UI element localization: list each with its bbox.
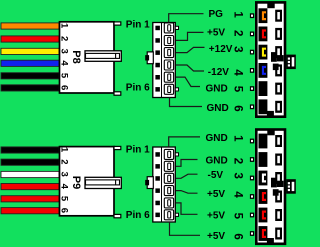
header J2 (bottom) pin slot 3: [164, 173, 173, 183]
header J1 (top) contact square 3: [155, 50, 160, 55]
header J1 (top) pin slot 4: [164, 60, 173, 70]
plug J8 (top right) rear slot 1: [275, 10, 282, 22]
svg-text:GND: GND: [206, 156, 228, 167]
header J1 (top) pin slot 6: [164, 84, 173, 94]
plug J8 (top right) body: [256, 2, 285, 116]
plug J9 (bottom right) crimp pin 2: [250, 157, 254, 162]
plug J9 (bottom right) rear slot 1: [275, 135, 282, 147]
wire P9 W4 red: [1, 184, 59, 190]
svg-text:-5V: -5V: [208, 170, 224, 181]
plug J8 (top right) bottom notch: [267, 111, 274, 117]
P9 pin1 stub: [114, 146, 121, 149]
plug J8 (top right) crimp pin 6: [250, 104, 254, 109]
svg-text:1: 1: [231, 135, 243, 142]
plug J8 (top right) wire 4 colour mark: [262, 66, 266, 75]
plug J8 (top right) rear slot 6: [275, 101, 282, 113]
plug J8 (top right) crimp pin 5: [250, 86, 254, 91]
wire net GND2 line (bottom): [176, 160, 198, 167]
svg-text:6: 6: [231, 105, 243, 111]
svg-text:6: 6: [59, 85, 70, 90]
plug J8 (top right) contact cavity 1: [259, 8, 268, 23]
svg-text:GND: GND: [207, 103, 229, 114]
plug J9 (bottom right) wire 2 colour mark: [262, 155, 266, 164]
plug J8 (top right) rear slot 2: [275, 28, 282, 40]
plug J9 (bottom right) crimp pin 4: [250, 194, 254, 199]
svg-text:3: 3: [231, 172, 243, 178]
plug J8 (top right) crimp pin 1: [250, 13, 254, 18]
P8 pin6 stub: [114, 92, 121, 95]
wire net GND1 line (bottom): [169, 137, 200, 147]
header J2 (bottom) pin slot 1: [164, 149, 173, 159]
header J1 (top) pin slot 3: [164, 48, 173, 58]
header J1 (top) contact square 4: [155, 63, 160, 68]
svg-text:Pin 6: Pin 6: [126, 83, 150, 94]
svg-text:Pin 1: Pin 1: [126, 19, 150, 30]
plug J9 (bottom right) wire 3 colour mark: [262, 174, 266, 183]
svg-text:+12V: +12V: [209, 44, 233, 55]
connector P8 body: [60, 22, 115, 93]
plug J8 (top right) wire 6 colour mark: [262, 102, 266, 111]
wire P8 W4 blue: [1, 60, 59, 66]
header J2 (bottom) contact square 3: [155, 176, 160, 181]
plug J9 (bottom right) bottom notch: [267, 238, 274, 244]
plug J9 (bottom right) crimp pin 1: [250, 139, 254, 144]
wire net +5V5 line (bottom): [176, 203, 198, 214]
P8 pin1 stub: [114, 22, 121, 25]
svg-text:Pin 1: Pin 1: [126, 145, 150, 156]
plug J9 (bottom right) contact cavity 6: [259, 226, 268, 241]
plug J8 (top right) wire 2 colour mark: [262, 29, 266, 38]
wire P9 W1 black: [1, 147, 59, 153]
svg-text:PG: PG: [209, 9, 224, 20]
wire net -12V line: [176, 65, 204, 71]
wire net -5V line: [176, 174, 198, 178]
header J2 (bottom) pin 6 stub: [175, 213, 178, 216]
plug J9 (bottom right) contact cavity 1: [259, 134, 268, 149]
header J1 (top) keying tab: [147, 52, 153, 64]
plug J9 (bottom right) rear slot 6: [275, 228, 282, 240]
header J2 (bottom) contact square 6: [155, 213, 160, 218]
header J1 (top) pin slot 5: [164, 72, 173, 82]
header J1 (top) contact square 2: [155, 38, 160, 43]
header J2 (bottom) contact square 1: [155, 152, 160, 157]
plug J9 (bottom right) contact cavity 3: [259, 171, 268, 186]
plug J9 (bottom right) rear slot 5: [275, 209, 282, 221]
wire P8 W6 black: [1, 85, 59, 91]
header J1 (top) body: [153, 23, 176, 98]
plug J9 (bottom right) polarizing key: [271, 178, 277, 188]
svg-text:4: 4: [231, 191, 243, 198]
plug J9 (bottom right) latch: [286, 179, 296, 194]
plug J9 (bottom right) contact cavity 4: [259, 189, 268, 204]
P8 latch slot: [85, 51, 121, 62]
header J2 (bottom) pin 1 stub: [175, 153, 178, 156]
svg-text:3: 3: [59, 48, 70, 53]
plug J9 (bottom right) body: [256, 130, 285, 244]
svg-text:5: 5: [231, 213, 243, 220]
plug J9 (bottom right) wire 4 colour mark: [262, 192, 266, 201]
svg-text:+5V: +5V: [207, 231, 225, 242]
plug J8 (top right) contact cavity 2: [259, 27, 268, 42]
wire P9 W2 black: [1, 159, 59, 165]
header J1 (top) contact square 6: [155, 87, 160, 92]
plug J8 (top right) crimp pin 2: [250, 32, 254, 37]
svg-text:3: 3: [231, 46, 243, 52]
plug J8 (top right) wire 5 colour mark: [262, 84, 266, 93]
plug J8 (top right) contact cavity 4: [259, 63, 268, 78]
header J2 (bottom) contact square 5: [155, 201, 160, 206]
plug J9 (bottom right) top notch: [267, 129, 274, 135]
svg-text:5: 5: [59, 73, 70, 79]
plug J9 (bottom right) wire 6 colour mark: [262, 229, 266, 238]
plug J8 (top right) wire 1 colour mark: [262, 11, 266, 20]
header J2 (bottom) pin slot 4: [164, 186, 173, 196]
wire net +5V line: [176, 32, 204, 40]
plug J8 (top right) crimp pin 3: [250, 50, 254, 55]
header J1 (top) pin slot 1: [164, 23, 173, 33]
svg-text:1: 1: [231, 11, 243, 18]
header J2 (bottom) pin slot 2: [164, 161, 173, 171]
svg-text:+5V: +5V: [207, 28, 225, 39]
svg-text:2: 2: [59, 36, 70, 41]
wire P8 W2 red: [1, 36, 59, 42]
header J2 (bottom) contact square 4: [155, 188, 160, 193]
P9 pin6 stub: [114, 214, 121, 217]
wire net PG line: [169, 14, 204, 23]
svg-text:-12V: -12V: [208, 67, 229, 78]
header J1 (top) pin slot 2: [164, 36, 173, 46]
svg-text:Pin 6: Pin 6: [126, 210, 150, 221]
plug J9 (bottom right) crimp pin 3: [250, 176, 254, 181]
svg-text:GND: GND: [206, 133, 228, 144]
plug J9 (bottom right) wire 1 colour mark: [262, 137, 266, 146]
header J2 (bottom) contact square 2: [155, 164, 160, 169]
plug J9 (bottom right) rear slot 2: [275, 154, 282, 166]
wire net GND5 line: [176, 77, 200, 86]
P9 latch slot: [85, 177, 121, 188]
header J2 (bottom) keying tab: [147, 177, 153, 189]
wire net GND6 line: [170, 98, 203, 107]
header J2 (bottom) pin slot 6: [164, 210, 173, 220]
svg-text:6: 6: [231, 233, 243, 239]
wire P8 W5 black: [1, 73, 59, 79]
wire P8 W3 yellow: [1, 48, 59, 54]
plug J8 (top right) latch: [286, 55, 296, 70]
svg-text:4: 4: [59, 60, 70, 66]
plug J9 (bottom right) wire 5 colour mark: [262, 211, 266, 220]
plug J8 (top right) contact cavity 6: [259, 99, 268, 114]
plug J9 (bottom right) crimp pin 6: [250, 231, 254, 236]
plug J8 (top right) rear slot 3: [275, 46, 282, 58]
wire P9 W5 red: [1, 196, 59, 202]
header J1 (top) contact square 1: [155, 26, 160, 31]
plug J8 (top right) rear slot 5: [275, 83, 282, 95]
svg-text:5: 5: [231, 86, 243, 93]
wire P9 W3 white: [1, 171, 59, 177]
svg-text:2: 2: [59, 159, 70, 164]
wire P9 W6 red: [1, 208, 59, 214]
plug J9 (bottom right) crimp pin 5: [250, 213, 254, 218]
wire P8 W1 orange: [1, 23, 59, 29]
header J1 (top) contact square 5: [155, 75, 160, 80]
wire net +5V6 line (bottom): [170, 222, 201, 235]
connector P9 body: [60, 147, 115, 216]
plug J8 (top right) contact cavity 3: [259, 45, 268, 60]
svg-text:1: 1: [59, 147, 70, 153]
header J1 (top) pin 6 stub: [175, 88, 178, 91]
svg-text:4: 4: [59, 184, 70, 190]
svg-text:5: 5: [59, 196, 70, 202]
svg-text:2: 2: [231, 30, 243, 36]
svg-text:4: 4: [231, 69, 243, 76]
plug J9 (bottom right) rear slot 3: [275, 172, 282, 184]
plug J8 (top right) top notch: [267, 2, 274, 8]
plug J8 (top right) contact cavity 5: [259, 81, 268, 96]
plug J9 (bottom right) contact cavity 5: [259, 208, 268, 223]
plug J8 (top right) wire 3 colour mark: [262, 48, 266, 57]
svg-text:1: 1: [59, 23, 70, 29]
header J2 (bottom) body: [153, 147, 176, 222]
plug J8 (top right) crimp pin 4: [250, 68, 254, 73]
svg-text:GND: GND: [206, 84, 228, 95]
svg-text:6: 6: [59, 208, 70, 213]
svg-text:P9: P9: [70, 176, 82, 189]
wire net +12V line: [176, 47, 205, 52]
plug J9 (bottom right) rear slot 4: [275, 191, 282, 203]
header J1 (top) pin 1 stub: [175, 26, 178, 29]
header J2 (bottom) pin slot 5: [164, 198, 173, 208]
plug J8 (top right) polarizing key: [271, 52, 277, 62]
plug J9 (bottom right) contact cavity 2: [259, 152, 268, 167]
svg-text:+5V: +5V: [207, 210, 225, 221]
svg-text:2: 2: [231, 158, 243, 164]
svg-text:P8: P8: [70, 50, 82, 63]
plug J8 (top right) rear slot 4: [275, 64, 282, 76]
svg-text:3: 3: [59, 172, 70, 177]
svg-text:+5V: +5V: [207, 189, 225, 200]
wire net +5V4 line (bottom): [176, 191, 198, 194]
